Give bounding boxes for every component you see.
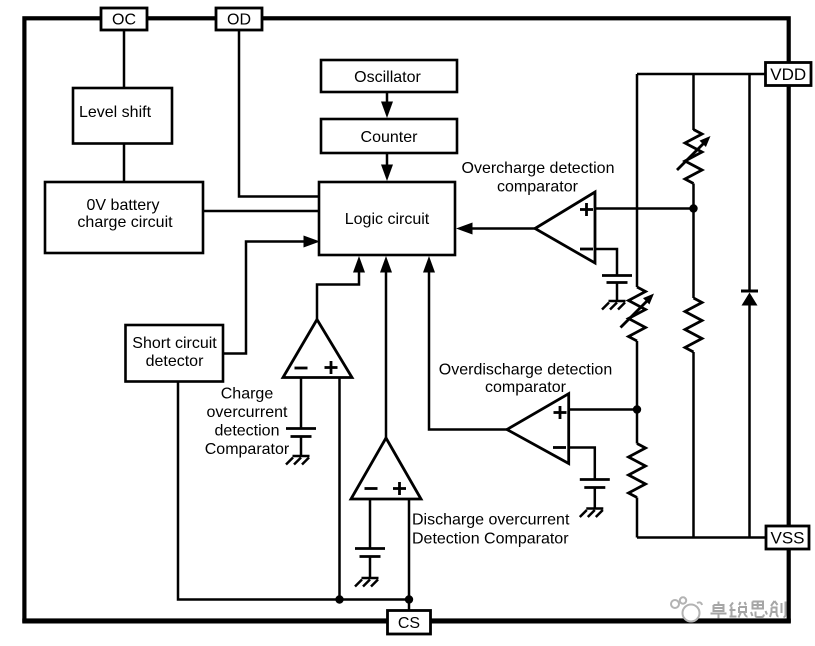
label Overdischarge detection comparator [439,362,612,397]
svg-text:detector: detector [146,353,204,370]
block 0V battery charge circuit [45,182,203,253]
wire U1 + input to node A [595,207,694,210]
wire U2 - input to capacitor C2 [569,448,595,481]
wire VDD rail to VR2 [636,74,639,287]
svg-text:Counter: Counter [361,129,419,146]
svg-text:OD: OD [227,12,251,29]
pin OD [216,8,262,30]
wire U2 + input to node B [569,408,637,411]
wire R1 to VSS rail [692,352,695,538]
wire VR2 to node B [636,341,639,410]
arrow U1 output to Logic circuit [456,223,535,235]
pin VSS [766,526,809,549]
arrow U2 output to Logic circuit [423,256,507,430]
wire Level shift to 0V battery [123,144,126,183]
wire U4 + input to node D [408,499,411,600]
svg-text:Detection Comparator: Detection Comparator [412,531,569,548]
wire OC to Level shift [123,29,126,89]
svg-text:Comparator: Comparator [205,441,290,458]
svg-text:comparator: comparator [485,379,567,396]
wire U3 - input to capacitor C3 [300,378,303,430]
wire VR1 to node A [692,184,695,209]
block Short circuit detector [126,325,224,382]
svg-text:Oscillator: Oscillator [354,69,421,86]
ground G2 [580,509,604,518]
diode D1 [741,291,758,306]
svg-text:Charge: Charge [221,386,274,403]
block Logic circuit [319,182,455,255]
wire U4 - input to capacitor C4 [369,499,372,549]
op-amp U1 overcharge detection comparator [535,192,595,263]
wire VDD rail to diode D1 [748,74,751,291]
block Level shift [73,88,172,144]
svg-text:comparator: comparator [497,179,579,196]
svg-text:detection: detection [215,423,280,440]
variable resistor VR2 [621,287,655,341]
block Oscillator [321,60,457,92]
label Discharge overcurrent Detection Comparator [412,512,570,548]
node D [405,595,413,603]
wire node B to R2 [636,410,639,444]
wire node D to pin CS [408,600,411,612]
svg-text:Short circuit: Short circuit [132,335,217,352]
svg-text:Logic circuit: Logic circuit [345,211,430,228]
capacitor C3 [286,429,316,457]
wire U1 - input to capacitor C1 [595,249,617,276]
svg-text:VDD: VDD [770,65,806,84]
wire VDD rail to VR1 [692,74,695,130]
watermark text 卓锐思创 [711,601,786,619]
label Overcharge detection comparator [462,160,615,196]
ground G3 [286,456,310,465]
wire 0V battery to Logic circuit [203,210,319,213]
pin OC [101,8,147,30]
svg-text:Overcharge detection: Overcharge detection [462,160,615,177]
wire diode D1 to VSS rail [748,306,751,538]
wire node C to node D [340,598,410,601]
wire VSS rail [637,536,766,539]
op-amp U3 charge overcurrent detection comparator [283,320,352,378]
node A [689,204,697,212]
capacitor C4 [355,549,385,579]
capacitor C2 [580,480,610,509]
arrow Counter to Logic circuit [381,153,393,181]
node B [633,405,641,413]
ground G4 [355,578,379,587]
pin VDD [766,63,812,86]
block Counter [321,119,457,153]
svg-text:Level shift: Level shift [79,104,152,121]
variable resistor VR1 [677,130,711,184]
arrow U4 output to Logic circuit [380,256,392,438]
svg-text:overcurrent: overcurrent [207,404,288,421]
resistor R1 [685,298,702,352]
svg-text:charge circuit: charge circuit [77,214,173,231]
arrow Oscillator to Counter [381,92,393,118]
label Charge overcurrent detection Comparator [205,386,290,459]
svg-text:OC: OC [112,12,136,29]
wire node A to R1 [692,209,695,299]
wire VDD rail [637,73,766,76]
resistor R2 [629,444,646,498]
op-amp U2 overdischarge detection comparator [507,394,569,464]
wire Short circuit detector to Logic circuit (arrow) [223,236,320,354]
wire Short circuit detector to CS rail [178,382,340,600]
ground G1 [602,301,626,310]
svg-text:Overdischarge detection: Overdischarge detection [439,362,612,379]
wire OD to Logic circuit [239,29,319,197]
svg-text:Discharge overcurrent: Discharge overcurrent [412,512,570,529]
pin CS [388,611,431,635]
watermark logo [671,597,702,621]
op-amp U4 discharge overcurrent detection comparator [351,438,421,499]
node C [335,595,343,603]
svg-text:VSS: VSS [770,529,804,548]
arrow U3 output to Logic circuit [317,256,365,320]
wire R2 to VSS rail [636,498,639,538]
svg-text:CS: CS [398,615,420,632]
capacitor C1 [602,276,632,302]
wire U3 + input to node C [338,378,341,600]
svg-text:0V battery: 0V battery [87,197,160,214]
